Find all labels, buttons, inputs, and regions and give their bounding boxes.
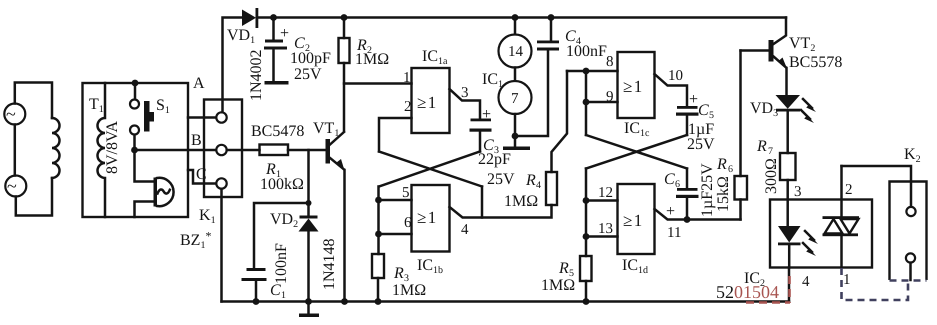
transistor VT1 BC5478 bbox=[251, 120, 345, 171]
node junction B row bbox=[131, 147, 138, 154]
wire C row bbox=[188, 166, 216, 184]
svg-text:VT2: VT2 bbox=[789, 35, 815, 54]
svg-text:≥ 1: ≥ 1 bbox=[623, 77, 642, 96]
svg-text:1MΩ: 1MΩ bbox=[504, 193, 538, 210]
svg-text:1N4002: 1N4002 bbox=[248, 49, 265, 101]
node junction pin13 bbox=[583, 233, 590, 240]
svg-text:VD2: VD2 bbox=[270, 211, 298, 230]
pin 13 wire bbox=[586, 221, 618, 237]
triac in IC2 bbox=[823, 216, 860, 267]
svg-text:25V: 25V bbox=[487, 171, 515, 188]
wire VD3 to R7 bbox=[786, 112, 789, 154]
transformer T1 primary winding bbox=[52, 118, 60, 178]
svg-text:6: 6 bbox=[728, 164, 733, 175]
svg-text:VT1: VT1 bbox=[313, 120, 339, 139]
svg-text:100kΩ: 100kΩ bbox=[260, 176, 304, 193]
svg-text:VD1: VD1 bbox=[227, 27, 255, 46]
svg-text:8V/8VA: 8V/8VA bbox=[104, 121, 121, 174]
ground bar under VD2 bbox=[299, 302, 319, 318]
node junction R5 bottom bbox=[583, 298, 590, 305]
connector K2 bbox=[890, 146, 927, 280]
svg-text:IC1c: IC1c bbox=[624, 120, 650, 139]
node junction C2 top bbox=[270, 14, 277, 21]
svg-text:R: R bbox=[716, 156, 727, 173]
node junction VD2 bottom bbox=[305, 298, 312, 305]
svg-text:BZ1*: BZ1* bbox=[180, 229, 211, 251]
svg-text:R: R bbox=[558, 260, 569, 277]
svg-text:1MΩ: 1MΩ bbox=[392, 282, 426, 299]
node junction R3 bottom bbox=[375, 298, 382, 305]
node junction pin8 bbox=[583, 68, 590, 75]
LED VD3 bbox=[750, 95, 800, 119]
wire top rail bbox=[258, 16, 786, 19]
capacitor C1 100nF bbox=[242, 243, 291, 302]
capacitor C3 22pF bbox=[470, 106, 516, 188]
wire IC2 pin4 to rail bbox=[789, 268, 810, 302]
wire bottom rail bbox=[222, 300, 790, 303]
svg-text:3: 3 bbox=[461, 85, 469, 101]
wire pin7 to ground bbox=[514, 114, 517, 147]
node junction C1 branch bbox=[306, 200, 312, 206]
svg-text:5201504: 5201504 bbox=[716, 282, 779, 302]
resistor R3 1M bbox=[372, 254, 426, 302]
capacitor C4 100nF bbox=[515, 18, 607, 137]
pin 6 wire bbox=[379, 215, 413, 234]
wire VT2 base row bbox=[741, 49, 769, 52]
svg-text:300Ω: 300Ω bbox=[763, 158, 780, 194]
svg-text:C: C bbox=[698, 102, 709, 119]
resistor R7 300 bbox=[756, 138, 796, 194]
svg-text:≥ 1: ≥ 1 bbox=[417, 93, 436, 112]
svg-text:1µF25V: 1µF25V bbox=[699, 163, 716, 217]
svg-text:11: 11 bbox=[667, 225, 681, 241]
node junction pin14 feed bbox=[512, 14, 519, 21]
IC2 LED emission arrows bbox=[803, 231, 818, 256]
op-amp gate IC1d bbox=[618, 184, 655, 276]
resistor R6 15k bbox=[715, 51, 747, 220]
svg-text:1: 1 bbox=[403, 70, 411, 86]
wire VT1 emitter down bbox=[343, 170, 346, 302]
svg-text:100pF: 100pF bbox=[290, 50, 331, 67]
svg-text:25V: 25V bbox=[687, 136, 715, 153]
svg-text:S1: S1 bbox=[156, 97, 170, 116]
svg-text:1MΩ: 1MΩ bbox=[541, 277, 575, 294]
wire C down to ground rail bbox=[220, 189, 223, 302]
wire buzzer top lead bbox=[135, 150, 155, 182]
wire cross coupling IC1a-IC1b bbox=[379, 152, 482, 187]
wire IC1d input riser bbox=[585, 169, 588, 237]
svg-text:100nF: 100nF bbox=[566, 43, 607, 60]
connector K1 bbox=[199, 100, 242, 227]
svg-text:IC1: IC1 bbox=[482, 71, 503, 90]
svg-text:K2: K2 bbox=[904, 146, 921, 165]
svg-text:+: + bbox=[482, 106, 491, 123]
node junction C4 top bbox=[548, 14, 555, 21]
svg-text:R: R bbox=[525, 172, 536, 189]
pin 4 output wire bbox=[450, 187, 483, 239]
terminal K2 upper bbox=[906, 207, 915, 216]
svg-text:2: 2 bbox=[845, 182, 853, 198]
optocoupler IC2 box bbox=[744, 200, 872, 290]
svg-text:+: + bbox=[666, 203, 675, 220]
buzzer BZ1 bbox=[154, 178, 174, 207]
node junction pin6 bbox=[375, 231, 382, 238]
svg-text:3: 3 bbox=[794, 184, 802, 200]
node junction pin5 bbox=[375, 197, 382, 204]
wire R7 to IC2 pin3 bbox=[788, 180, 802, 226]
capacitor C2 bbox=[264, 18, 331, 84]
pin 1 label bbox=[403, 70, 411, 86]
transformer module box T1 bbox=[83, 83, 189, 217]
svg-text:IC1d: IC1d bbox=[622, 257, 648, 276]
svg-text:4: 4 bbox=[461, 222, 469, 238]
pin 10 output wire bbox=[655, 68, 688, 106]
svg-text:1MΩ: 1MΩ bbox=[355, 51, 389, 68]
IC1 power pin 7 bbox=[482, 68, 532, 115]
wire cross coupling IC1c-IC1d bbox=[586, 135, 687, 169]
ground bar under C2 bbox=[265, 81, 289, 85]
node junction VT1 emitter bottom bbox=[341, 298, 348, 305]
svg-text:4: 4 bbox=[536, 180, 541, 191]
watermark 5201504 bbox=[716, 276, 790, 303]
resistor R4 1M bbox=[482, 71, 567, 218]
op-amp gate IC1c bbox=[618, 52, 655, 139]
capacitor C6 1uF bbox=[664, 163, 716, 220]
svg-text:7: 7 bbox=[768, 146, 773, 157]
pin 12 wire bbox=[586, 185, 618, 201]
wire to IC1a pin1 bbox=[344, 82, 412, 85]
svg-text:T1: T1 bbox=[89, 96, 104, 115]
pin 9 wire bbox=[586, 71, 618, 135]
node junction pin12 bbox=[583, 197, 590, 204]
terminal A bbox=[216, 112, 226, 122]
svg-text:≥ 1: ≥ 1 bbox=[417, 208, 436, 227]
AC source terminal 1 bbox=[4, 104, 25, 125]
IC2 internal LED bbox=[778, 226, 801, 268]
svg-text:22pF: 22pF bbox=[478, 151, 511, 168]
pin 8 wire bbox=[567, 54, 618, 71]
pin 5 wire bbox=[379, 185, 412, 201]
wire triac pin2 riser bbox=[842, 166, 853, 217]
svg-text:15kΩ: 15kΩ bbox=[715, 176, 732, 212]
svg-text:BC5578: BC5578 bbox=[789, 54, 842, 71]
transformer T1 secondary winding bbox=[98, 83, 105, 217]
wire B label bbox=[191, 132, 202, 149]
svg-text:1N4148: 1N4148 bbox=[321, 238, 338, 290]
pin 11 output wire bbox=[655, 209, 741, 241]
wire B row bbox=[135, 149, 217, 152]
svg-text:8: 8 bbox=[606, 54, 614, 70]
svg-text:14: 14 bbox=[508, 44, 524, 60]
wire IC1b input riser bbox=[377, 187, 380, 255]
svg-text:~: ~ bbox=[6, 104, 16, 124]
svg-text:≥ 1: ≥ 1 bbox=[623, 211, 642, 230]
wire VD2 anode riser bbox=[307, 150, 310, 216]
capacitor C5 1uF bbox=[676, 91, 715, 153]
transistor VT2 BC5578 bbox=[769, 18, 843, 72]
svg-text:IC1b: IC1b bbox=[417, 257, 443, 276]
svg-text:5: 5 bbox=[709, 110, 714, 121]
svg-text:6: 6 bbox=[675, 179, 680, 190]
svg-text:C: C bbox=[664, 171, 675, 188]
svg-text:13: 13 bbox=[598, 221, 613, 237]
wire top rail left riser bbox=[223, 18, 243, 113]
svg-text:+: + bbox=[689, 91, 698, 108]
node junction C1 bottom bbox=[253, 298, 260, 305]
node junction pin9 bbox=[583, 99, 590, 106]
op-amp gate IC1a bbox=[412, 48, 450, 133]
resistor R2 1M bbox=[339, 18, 390, 132]
svg-text:1: 1 bbox=[843, 272, 851, 288]
resistor R1 100k bbox=[227, 145, 326, 194]
diode VD1 1N4002 bbox=[227, 8, 265, 101]
svg-text:9: 9 bbox=[606, 89, 614, 105]
svg-text:K1: K1 bbox=[199, 207, 216, 226]
svg-text:~: ~ bbox=[7, 176, 17, 196]
svg-text:R: R bbox=[393, 265, 404, 282]
wire K2 top link bbox=[842, 166, 912, 207]
node junction C6 bottom bbox=[684, 216, 691, 223]
resistor R5 1M bbox=[541, 237, 592, 302]
svg-text:7: 7 bbox=[511, 91, 519, 107]
op-amp gate IC1b bbox=[412, 185, 450, 276]
svg-text:VD3: VD3 bbox=[750, 100, 778, 119]
svg-text:2: 2 bbox=[404, 99, 412, 115]
label BZ1* bbox=[180, 229, 211, 251]
node junction pin7 ground bbox=[512, 133, 519, 140]
svg-text:IC1a: IC1a bbox=[422, 48, 448, 67]
svg-text:4: 4 bbox=[802, 274, 810, 290]
svg-text:R: R bbox=[756, 138, 767, 155]
svg-text:12: 12 bbox=[598, 185, 613, 201]
wire A row bbox=[188, 75, 216, 118]
svg-text:10: 10 bbox=[668, 68, 683, 84]
svg-text:C: C bbox=[270, 282, 281, 299]
svg-text:1: 1 bbox=[281, 290, 286, 301]
terminal B bbox=[216, 145, 226, 155]
svg-text:5: 5 bbox=[402, 185, 410, 201]
terminal K2 lower bbox=[906, 253, 915, 280]
wire VT2 emitter down bbox=[785, 68, 788, 95]
wire buzzer bottom lead bbox=[135, 202, 155, 218]
svg-text:BC5478: BC5478 bbox=[251, 123, 304, 140]
diode VD2 1N4148 bbox=[270, 211, 338, 302]
AC source terminal 2 bbox=[5, 176, 26, 197]
node junction R2 top bbox=[341, 14, 348, 21]
pin 3 output wire bbox=[450, 85, 481, 119]
svg-text:25V: 25V bbox=[294, 66, 322, 83]
svg-text:+: + bbox=[280, 25, 289, 42]
dashed wire IC2 pin1 to K2 bbox=[842, 268, 927, 300]
label 8V/8VA bbox=[104, 121, 121, 174]
ground bar IC1 bbox=[503, 147, 530, 151]
terminal C bbox=[216, 178, 226, 188]
pin 2 wire bbox=[379, 99, 412, 152]
LED VD3 emission arrows bbox=[801, 99, 816, 123]
node junction S1 top bbox=[132, 80, 139, 87]
switch S1 bbox=[130, 83, 170, 150]
IC1 power pin 14 bbox=[499, 18, 532, 68]
wire C1 branch bbox=[254, 203, 309, 268]
svg-text:A: A bbox=[193, 75, 205, 92]
svg-text:C: C bbox=[196, 166, 207, 183]
svg-text:100nF: 100nF bbox=[273, 243, 290, 284]
svg-text:B: B bbox=[191, 132, 202, 149]
wire AC loop bbox=[15, 83, 52, 216]
